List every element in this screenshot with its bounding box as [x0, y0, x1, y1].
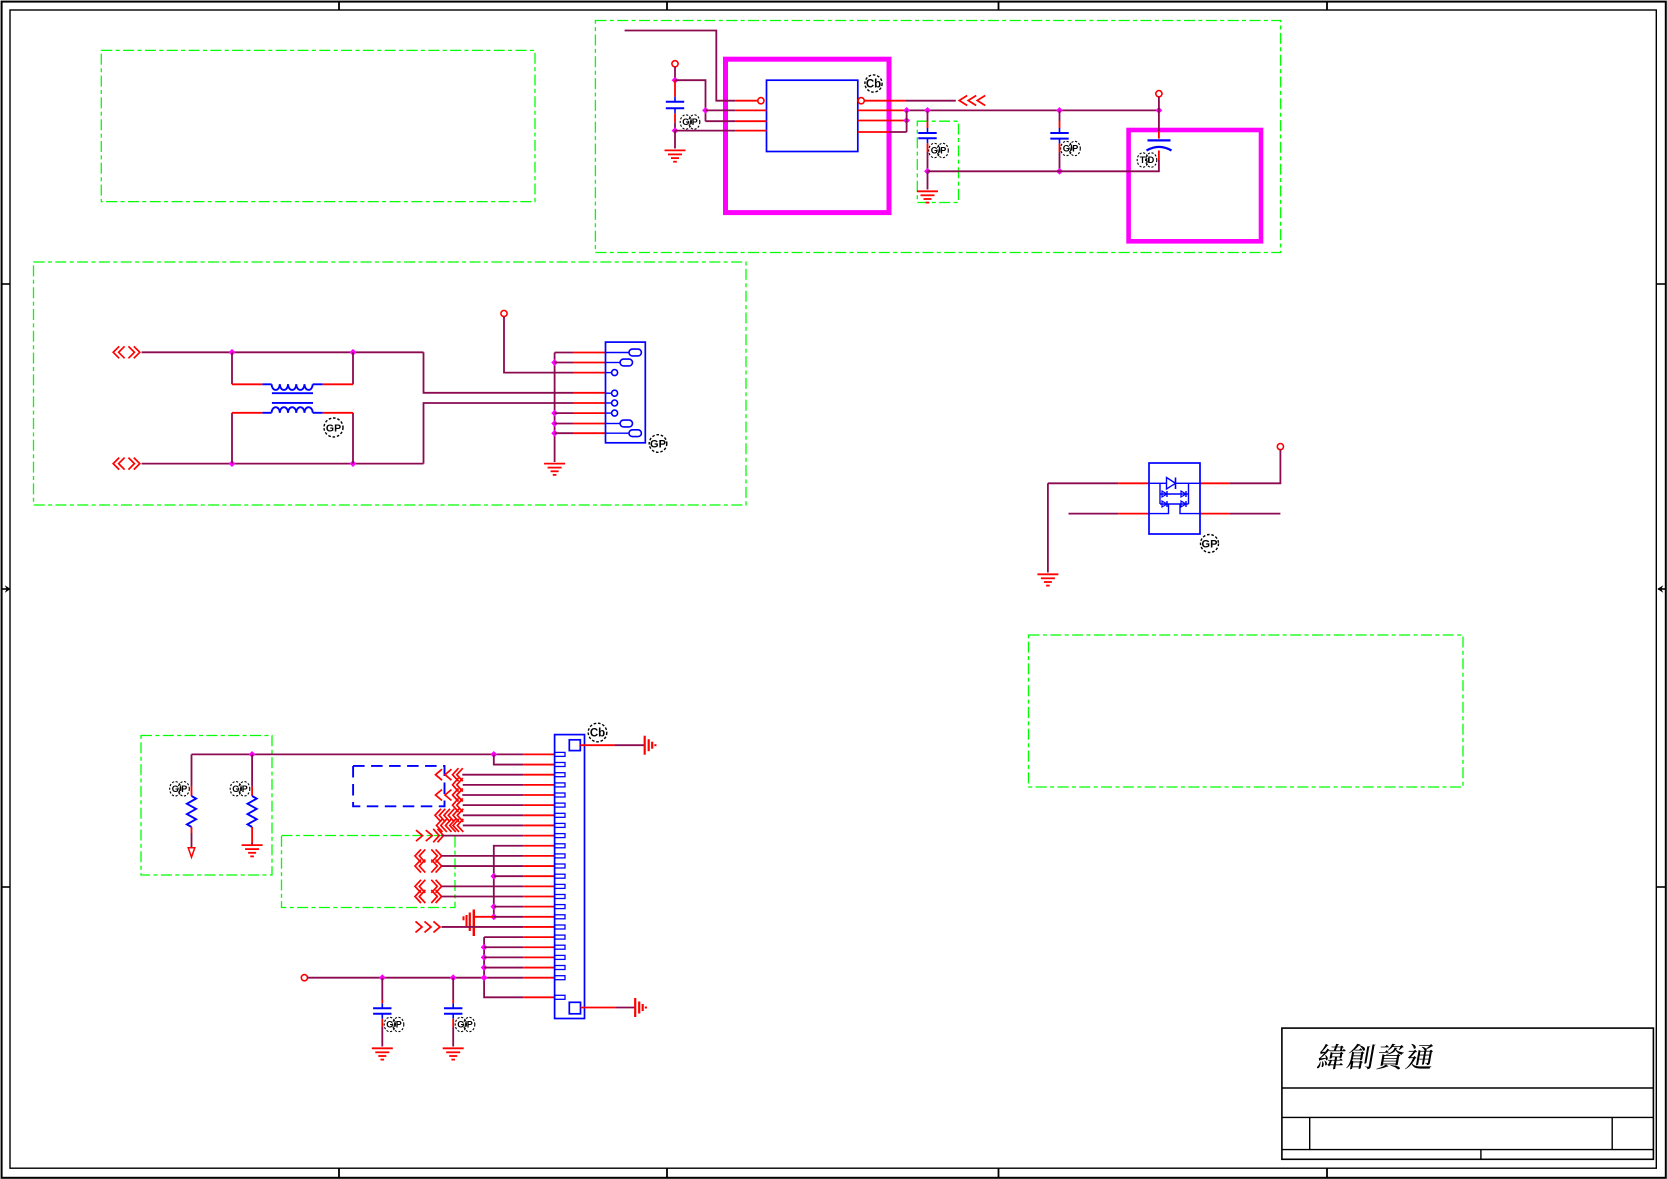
- common-mode choke L1 windings: [262, 384, 322, 413]
- wire bottom bus C2-C3: [928, 170, 1060, 172]
- terminal T5 (open circle): [301, 975, 307, 981]
- off-page chevrons row p11: [415, 849, 442, 862]
- wire CN1 row8: [555, 432, 606, 434]
- wire bottom bus of choke: [142, 463, 424, 465]
- wire top bus of choke: [142, 351, 424, 353]
- link stamp Cb (CN2): [588, 723, 607, 742]
- junction bottom bus right: [350, 460, 357, 467]
- wire pin1 bus: [192, 753, 555, 755]
- resistor R2: [248, 796, 257, 827]
- junction p20: [481, 944, 488, 951]
- wire row p9: [442, 835, 555, 837]
- wire row p6: [463, 804, 555, 806]
- dashed region box D (around capacitor C2): [917, 121, 958, 202]
- wire choke output lower: [424, 403, 606, 464]
- ground G4: [1037, 574, 1058, 585]
- stamp G/P at C5: [384, 1017, 404, 1031]
- stamp G/P at C1: [680, 115, 700, 129]
- wire R2 top: [251, 754, 253, 796]
- junction bus x927: [924, 107, 931, 114]
- wire row p7: [463, 814, 555, 816]
- off-page chevrons row p8: [437, 819, 464, 832]
- chassis ground CH1: [645, 736, 656, 755]
- wire CN1 row7: [555, 423, 606, 425]
- junction bus x1159: [1156, 107, 1163, 114]
- wire T1 down to junction: [674, 67, 676, 80]
- svg-text:GP: GP: [326, 423, 341, 435]
- junction C2 bottom: [924, 168, 931, 175]
- wire row p21: [484, 956, 554, 958]
- wire choke top-right lead: [323, 352, 353, 384]
- wire row p20: [484, 946, 554, 948]
- TVS diode array D1: [1149, 463, 1200, 534]
- link stamp Cb (top right of U1): [865, 75, 882, 92]
- off-page chevrons row p12: [415, 860, 442, 873]
- wire top feed to U1 pin1: [625, 31, 758, 101]
- svg-text:G/P: G/P: [931, 146, 947, 156]
- wire R1 bottom: [191, 827, 193, 848]
- wire TVS top right: [1200, 450, 1281, 484]
- junction top bus right: [350, 349, 357, 356]
- junction C5: [379, 974, 386, 981]
- wire C1 bottom to junction: [674, 113, 676, 130]
- off-page chevrons row p15: [415, 890, 442, 903]
- ground G1: [665, 150, 686, 161]
- wire power bus: [308, 977, 555, 979]
- junction at C1 top: [672, 77, 679, 84]
- wire CN2 shield top: [580, 744, 644, 746]
- wire choke top-left lead: [232, 352, 262, 384]
- wire C3 bottom: [1059, 144, 1061, 172]
- stamp G/P at C6: [455, 1017, 475, 1031]
- junction at C1 bottom (row4): [672, 127, 679, 134]
- stamp GP at choke: [324, 418, 343, 437]
- dashed region box B (power input section): [595, 21, 1280, 253]
- stamp G/P at C2: [929, 143, 949, 157]
- junction p21: [481, 954, 488, 961]
- off-page chevrons row p5: [436, 789, 463, 802]
- wire row p4: [463, 784, 555, 786]
- junction p16: [490, 903, 497, 910]
- ground G7: [443, 1048, 464, 1059]
- wire U1 row2 right (main bus): [858, 109, 1159, 111]
- stamp G/P at R2: [230, 782, 250, 796]
- junction bus-pin2 branch: [490, 751, 497, 758]
- junction p22: [481, 964, 488, 971]
- dashed region box H (blue, inside LCD section): [353, 766, 444, 806]
- svg-text:G/P: G/P: [232, 784, 248, 794]
- wire U1 row2 left: [706, 109, 767, 111]
- terminal T2 (open circle): [1156, 91, 1162, 97]
- pin open circle (U1 right row1): [858, 98, 864, 104]
- svg-text:G/P: G/P: [1063, 144, 1079, 154]
- junction row3 right: [903, 117, 910, 124]
- off-page connector «» (bottom): [113, 458, 140, 470]
- svg-text:GP: GP: [650, 439, 666, 451]
- off-page chevrons row p7: [435, 809, 463, 822]
- wire row p17: [474, 916, 555, 918]
- dashed region box A (top left, empty): [101, 50, 535, 201]
- wire CN1 row2: [555, 362, 606, 364]
- stamp G/P at C3: [1061, 141, 1081, 155]
- junction CN1 row7: [551, 420, 558, 427]
- wire bus to C4: [1158, 110, 1160, 138]
- wire R2 bottom: [251, 827, 253, 845]
- capacitor C6: [444, 1003, 462, 1019]
- junction p13: [490, 873, 497, 880]
- wire U1 row1 right to off-page: [864, 100, 956, 102]
- wire T1 branch to rows 2-3: [675, 80, 706, 121]
- svg-text:T\D: T\D: [1140, 155, 1155, 165]
- off-page connector «» (top): [113, 346, 140, 358]
- junction CN1 row6: [551, 410, 558, 417]
- capacitor C5: [373, 1003, 391, 1019]
- off-page chevrons row p4: [453, 778, 463, 792]
- capacitor C4 (polarized): [1147, 140, 1172, 150]
- junction bus x906: [903, 107, 910, 114]
- wire C6 top: [452, 978, 454, 1004]
- stamp T/D at C4: [1137, 153, 1157, 167]
- wire CN2 shield bottom: [581, 1007, 636, 1009]
- dashed region box F (differential pairs group): [282, 836, 456, 908]
- off-page chevrons <<<: [959, 96, 985, 106]
- wire vertical net pins19-24: [484, 937, 554, 997]
- stamp GP at CN1: [649, 435, 667, 453]
- dashed region box E (around resistors R1 R2): [141, 736, 272, 876]
- terminal T3 (open circle): [501, 310, 507, 316]
- pin-1 open circle (U1 left): [758, 98, 764, 104]
- wire bus to C3: [1059, 110, 1061, 128]
- stamp G/P at R1: [170, 782, 190, 796]
- off-page chevrons row p3: [436, 768, 463, 781]
- wire C1 top stub: [674, 80, 676, 97]
- wire T2 to bus: [1158, 97, 1160, 111]
- chassis ground at row p17: [464, 910, 474, 937]
- wire vertical net to pin10: [494, 846, 555, 917]
- wire R1 top: [191, 754, 193, 796]
- module box U1 (magenta highlight): [726, 59, 890, 212]
- wire U1 row3 right: [858, 120, 907, 122]
- wire C2 to ground: [927, 171, 929, 189]
- svg-text:G/P: G/P: [386, 1020, 402, 1030]
- svg-text:G/P: G/P: [682, 117, 698, 127]
- junction p17: [490, 913, 497, 920]
- wire C5 top: [381, 978, 383, 1004]
- wire branch to pin2: [494, 754, 555, 764]
- ground G3 (CN1 bus): [544, 464, 565, 475]
- svg-text:GP: GP: [1202, 539, 1218, 551]
- wire choke bottom-right lead: [323, 413, 353, 464]
- wire row p14: [442, 885, 555, 887]
- wire row p15: [442, 896, 555, 898]
- wire CN1 row1: [555, 352, 606, 354]
- wire U1 row4 left: [675, 130, 767, 132]
- wire row p13: [494, 875, 555, 877]
- junction CN1 row8: [551, 430, 558, 437]
- wire choke output upper: [424, 352, 606, 393]
- wire row p3: [462, 774, 554, 776]
- chassis ground CH2: [635, 998, 646, 1017]
- junction p23-vert: [481, 974, 488, 981]
- dashed region box G (right, empty): [1029, 635, 1464, 787]
- wire TVS top left: [1048, 482, 1149, 484]
- off-page chevrons row p9 (right-pointing): [416, 829, 444, 843]
- wire TVS bottom right: [1200, 513, 1281, 515]
- off-page chevrons row p6: [453, 798, 463, 812]
- wire C2 bottom: [927, 143, 929, 171]
- module box M2 (magenta highlight): [1129, 130, 1261, 241]
- wire C4 bottom: [1060, 151, 1159, 172]
- junction C6: [450, 974, 457, 981]
- wire TVS bottom left: [1069, 513, 1150, 515]
- wire U1 row4 right: [858, 131, 907, 133]
- wire row p18: [442, 926, 555, 928]
- wire CN1 ground bus vertical: [554, 353, 556, 463]
- IC U1 (power module body): [767, 80, 858, 151]
- svg-text:G/P: G/P: [172, 784, 188, 794]
- dashed region box C (EMI filter section): [34, 262, 747, 505]
- terminal T4 (open circle): [1277, 444, 1283, 450]
- capacitor C1: [666, 97, 684, 114]
- wire U1 row3 left: [706, 120, 767, 122]
- wire C6 bottom: [452, 1019, 454, 1047]
- off-page chevrons row p18: [416, 921, 441, 932]
- connector CN1 (8-pin): [606, 342, 646, 443]
- wire choke bottom-left lead: [232, 413, 262, 464]
- off-page chevrons row p14: [415, 880, 442, 893]
- wire row p8: [463, 824, 555, 826]
- ground G5: [242, 845, 263, 856]
- junction bus x1059: [1056, 107, 1063, 114]
- junction C3 bottom: [1056, 168, 1063, 175]
- capacitor C3: [1050, 128, 1068, 144]
- svg-text:G/P: G/P: [457, 1020, 473, 1030]
- arrow terminal (open triangle): [188, 848, 195, 858]
- wire T3 to CN1 row3: [504, 317, 606, 373]
- stamp GP at TVS: [1201, 535, 1219, 553]
- wire row p12: [442, 865, 555, 867]
- wire vertical linking rows 2-4: [906, 110, 908, 132]
- ground G2: [917, 191, 938, 202]
- wire row p11: [442, 855, 555, 857]
- resistor R1: [187, 796, 196, 827]
- wire TVS left to ground: [1047, 483, 1049, 572]
- svg-text:Cb: Cb: [866, 79, 881, 91]
- wire row p22: [484, 967, 554, 969]
- wire C1 to ground: [674, 131, 676, 149]
- junction row2: [702, 107, 709, 114]
- junction CN1 row2: [551, 359, 558, 366]
- junction bus-R2: [249, 751, 256, 758]
- junction top bus left: [229, 349, 236, 356]
- title block: [1282, 1028, 1654, 1159]
- wire row p5: [462, 794, 554, 796]
- junction bottom bus left: [229, 460, 236, 467]
- wire row p16: [494, 906, 555, 908]
- svg-text:Cb: Cb: [590, 728, 605, 740]
- ground G6: [372, 1048, 393, 1059]
- wire bus to C2: [927, 110, 929, 128]
- wire C5 bottom: [381, 1019, 383, 1047]
- capacitor C2: [918, 128, 936, 143]
- terminal T1 (open circle): [672, 61, 678, 67]
- wire CN1 row6: [555, 412, 606, 414]
- connector CN2 (24-pin LCD): [555, 735, 585, 1019]
